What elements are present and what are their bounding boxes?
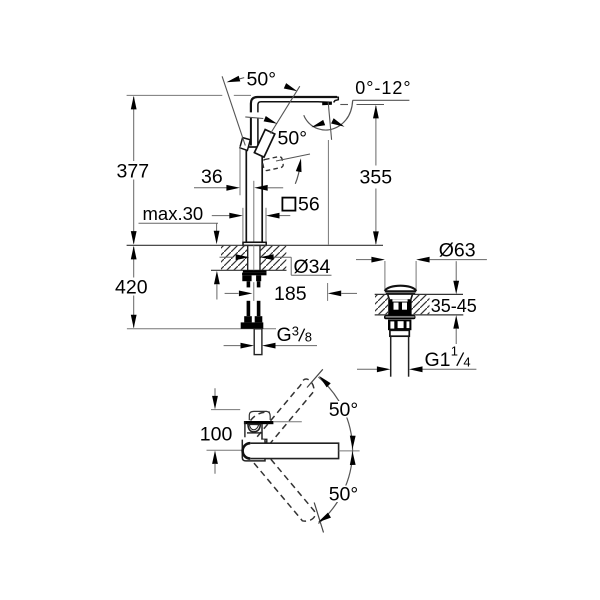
threaded shank walls — [247, 245, 249, 270]
arrowhead 377 top — [131, 96, 137, 110]
arrowhead swing top — [317, 374, 331, 388]
svg-text:355: 355 — [360, 166, 393, 188]
top view spout line — [274, 421, 302, 423]
lever centerline right of bar — [339, 450, 360, 452]
dim line G114 right — [423, 368, 477, 370]
supply hose lower right — [257, 301, 261, 316]
drain countertop hatch right — [412, 295, 430, 314]
extension line, top of faucet (377 reference) — [127, 94, 223, 96]
svg-text:Ø34: Ø34 — [294, 256, 331, 278]
lever rounded end — [243, 443, 251, 458]
100 lower shaft — [214, 464, 216, 474]
drain countertop top line — [375, 293, 463, 295]
svg-text:50°: 50° — [247, 69, 277, 91]
drain body neck tapered sides — [388, 294, 390, 299]
arrowhead 36 left — [226, 185, 240, 191]
drain locknut — [388, 320, 411, 331]
supply hose upper right — [257, 281, 261, 287]
dim line 185 right — [341, 292, 357, 294]
square symbol for 56 — [282, 198, 295, 211]
dimension 355 vertical line — [375, 106, 377, 166]
fraction slash G1-1/4 — [457, 353, 464, 366]
dim line 185 left — [225, 292, 239, 294]
dim line O63 right — [430, 259, 487, 261]
top view right side line — [261, 424, 263, 442]
100 upper shaft — [214, 388, 216, 396]
arrowhead 420 bottom — [131, 315, 137, 329]
svg-text:56: 56 — [298, 193, 320, 215]
arrowhead G114 left — [377, 366, 391, 372]
body interior line / cartridge axis — [253, 181, 255, 245]
arrowhead 355 top — [373, 105, 379, 119]
svg-text:max.30: max.30 — [143, 203, 204, 224]
dashed lever swung down 50 deg — [246, 443, 315, 521]
upper lever axis tick — [307, 369, 323, 387]
35-45 lower shaft — [455, 328, 457, 344]
svg-text:3: 3 — [292, 323, 299, 338]
arrowhead swivel left — [311, 120, 326, 130]
faucet body column — [246, 147, 262, 242]
faucet axis tick 185 — [253, 282, 255, 301]
aerator (mousseur) black face — [322, 102, 332, 106]
svg-text:35-45: 35-45 — [431, 296, 477, 316]
mounting nut block left — [242, 275, 251, 281]
top view small tab — [262, 439, 267, 442]
svg-text:50°: 50° — [329, 483, 359, 505]
drain body block — [388, 299, 411, 315]
top view cup base line — [247, 432, 262, 434]
dim line O34 left — [220, 256, 234, 258]
top view cartridge cup — [248, 424, 261, 432]
arrowhead 56 right — [266, 213, 280, 219]
arrowhead 355 bottom — [373, 231, 379, 245]
arrowhead O34 left — [236, 254, 250, 260]
G3/8 connection tube — [254, 329, 262, 355]
O34 underline — [291, 274, 331, 276]
svg-text:420: 420 — [115, 276, 148, 298]
top view mounting plate — [244, 421, 274, 424]
extension lines for square-56 — [242, 208, 244, 242]
arrow tail 50deg — [239, 78, 244, 79]
underline 0-12 deg — [353, 99, 410, 101]
lever handle rear tip (closed) — [240, 138, 251, 151]
arrowhead G38 left — [241, 343, 255, 349]
arrowhead 185 left — [239, 291, 253, 297]
countertop hatch left of shank — [221, 246, 247, 270]
arrowhead swing bottom — [316, 513, 331, 525]
lower lever axis tick — [314, 503, 323, 533]
arrowhead 100 up — [212, 450, 218, 464]
dim line 36 left — [194, 187, 227, 189]
arrowhead 100 down — [212, 396, 218, 410]
reference line 355 top (left) — [340, 104, 348, 106]
dim line O63 left — [356, 259, 371, 261]
ext line O63 right — [415, 261, 417, 290]
svg-text:4: 4 — [463, 354, 470, 369]
faucet spout inner (underside) edge — [258, 102, 330, 113]
hose end fitting right — [255, 316, 263, 322]
arrowhead 36 right — [254, 185, 268, 191]
ref line 100 bottom — [207, 449, 243, 451]
arrowhead 377 bottom — [131, 231, 137, 245]
arrowhead O63 right — [416, 257, 430, 263]
mounting nut band — [242, 273, 266, 276]
top view spout arch — [249, 411, 270, 420]
shank centerline — [253, 245, 255, 270]
svg-text:8: 8 — [305, 330, 312, 345]
bottom reference line 420 — [127, 328, 276, 330]
arrowhead open axis arrow — [264, 116, 279, 126]
arrowhead 35-45 down — [453, 281, 459, 295]
drain countertop bottom line — [375, 314, 464, 316]
arrowhead 420 top — [131, 246, 137, 260]
dashed lever (open position) — [262, 156, 284, 171]
svg-text:G1: G1 — [425, 349, 451, 371]
svg-text:50°: 50° — [278, 128, 308, 150]
mounting nut block right — [256, 275, 261, 281]
countertop hatch right of shank — [260, 246, 286, 270]
svg-text:50°: 50° — [329, 399, 359, 421]
hose end fitting left — [244, 316, 252, 322]
dimension 35-45 — [455, 261, 457, 281]
swivel arc under spout tip — [304, 100, 353, 130]
supply hose lower left — [247, 301, 251, 316]
arrowhead 50deg left — [226, 76, 241, 85]
lever open-position axis diagonal line — [271, 86, 300, 133]
arrowhead O34 right — [260, 254, 274, 260]
arrowhead swivel right — [331, 118, 346, 129]
mounting washer — [243, 270, 267, 272]
dim line to open axis — [245, 117, 263, 119]
spout outlet axis extension line — [327, 140, 329, 245]
max.30 lower shaft — [216, 284, 218, 300]
open lever axis line — [276, 154, 310, 161]
max.30 drop line — [216, 223, 218, 231]
lever handle (closed position) — [254, 130, 274, 158]
arrowhead max.30 down — [214, 231, 220, 245]
reference line 355 top (right) — [357, 104, 385, 106]
curved arrow to open lever axis — [295, 163, 300, 184]
drain flange — [384, 315, 416, 319]
arrowhead swing mid lower — [350, 451, 356, 465]
drain countertop hatch left — [375, 295, 388, 314]
svg-text:Ø63: Ø63 — [439, 240, 476, 262]
drain cap dome — [385, 286, 416, 291]
lever bar (top view, mid position) — [250, 443, 338, 458]
dim line O34 right — [274, 256, 292, 258]
arrowhead 56 left — [229, 213, 243, 219]
arrowhead max.30 up — [214, 271, 220, 285]
underline max.30 — [139, 222, 219, 224]
dim line 36 right — [268, 187, 284, 189]
svg-text:G: G — [277, 324, 292, 346]
drain cap rim lower — [386, 293, 415, 295]
supply hose upper left — [247, 281, 251, 287]
drain window left — [394, 303, 399, 310]
svg-text:100: 100 — [200, 424, 233, 446]
dim line G114 left — [357, 368, 377, 370]
drain cap rim upper — [385, 290, 416, 292]
dashed heel arc of upper lever — [251, 412, 270, 420]
dimension 377 vertical line — [133, 97, 135, 161]
top view bracket box — [242, 440, 265, 461]
hose connector bar — [241, 322, 264, 328]
dim line G38 right — [276, 345, 318, 347]
dashed lever swung up 50 deg — [251, 379, 315, 458]
arrowhead G38 right — [262, 343, 276, 349]
fraction slash G3/8 — [299, 329, 305, 342]
svg-text:377: 377 — [117, 160, 150, 182]
countertop bottom line — [211, 269, 287, 271]
dimension 420 vertical line — [133, 247, 135, 278]
arrowhead swing mid upper — [350, 436, 356, 450]
spout tip nose — [334, 97, 339, 102]
arrowhead 50deg mid — [296, 158, 304, 172]
svg-text:0°-12°: 0°-12° — [355, 78, 411, 98]
ref line 100 top — [211, 409, 240, 411]
countertop top surface line — [127, 244, 383, 246]
arrowhead 35-45 up — [453, 315, 459, 329]
swing arc — [318, 377, 352, 523]
aerator tilt indicator line — [328, 102, 331, 140]
arrowhead G114 right — [409, 366, 423, 372]
O34 leader drop — [290, 257, 292, 275]
ext line O63 left — [384, 261, 386, 290]
faucet spout outer edge — [251, 97, 337, 112]
drain body slot — [392, 299, 407, 301]
arrowhead O63 left — [371, 257, 385, 263]
drain window right — [402, 303, 407, 310]
lever closed-position axis line (50 deg leg) — [222, 76, 245, 145]
top view left side line — [244, 421, 246, 437]
arrowhead 50deg right — [284, 83, 299, 94]
guide line left of body — [239, 146, 241, 195]
dim line G38 left — [224, 345, 241, 347]
svg-text:185: 185 — [274, 283, 307, 305]
arrowhead 185 right — [328, 291, 342, 297]
drain tailpipe — [390, 336, 392, 376]
svg-text:36: 36 — [201, 166, 223, 188]
top view cup inner rim — [249, 424, 258, 430]
svg-text:1: 1 — [451, 343, 458, 358]
dim line 56 left — [212, 215, 230, 217]
drain collar — [390, 330, 409, 336]
dim line 56 right — [280, 215, 291, 217]
base plate — [243, 242, 266, 245]
